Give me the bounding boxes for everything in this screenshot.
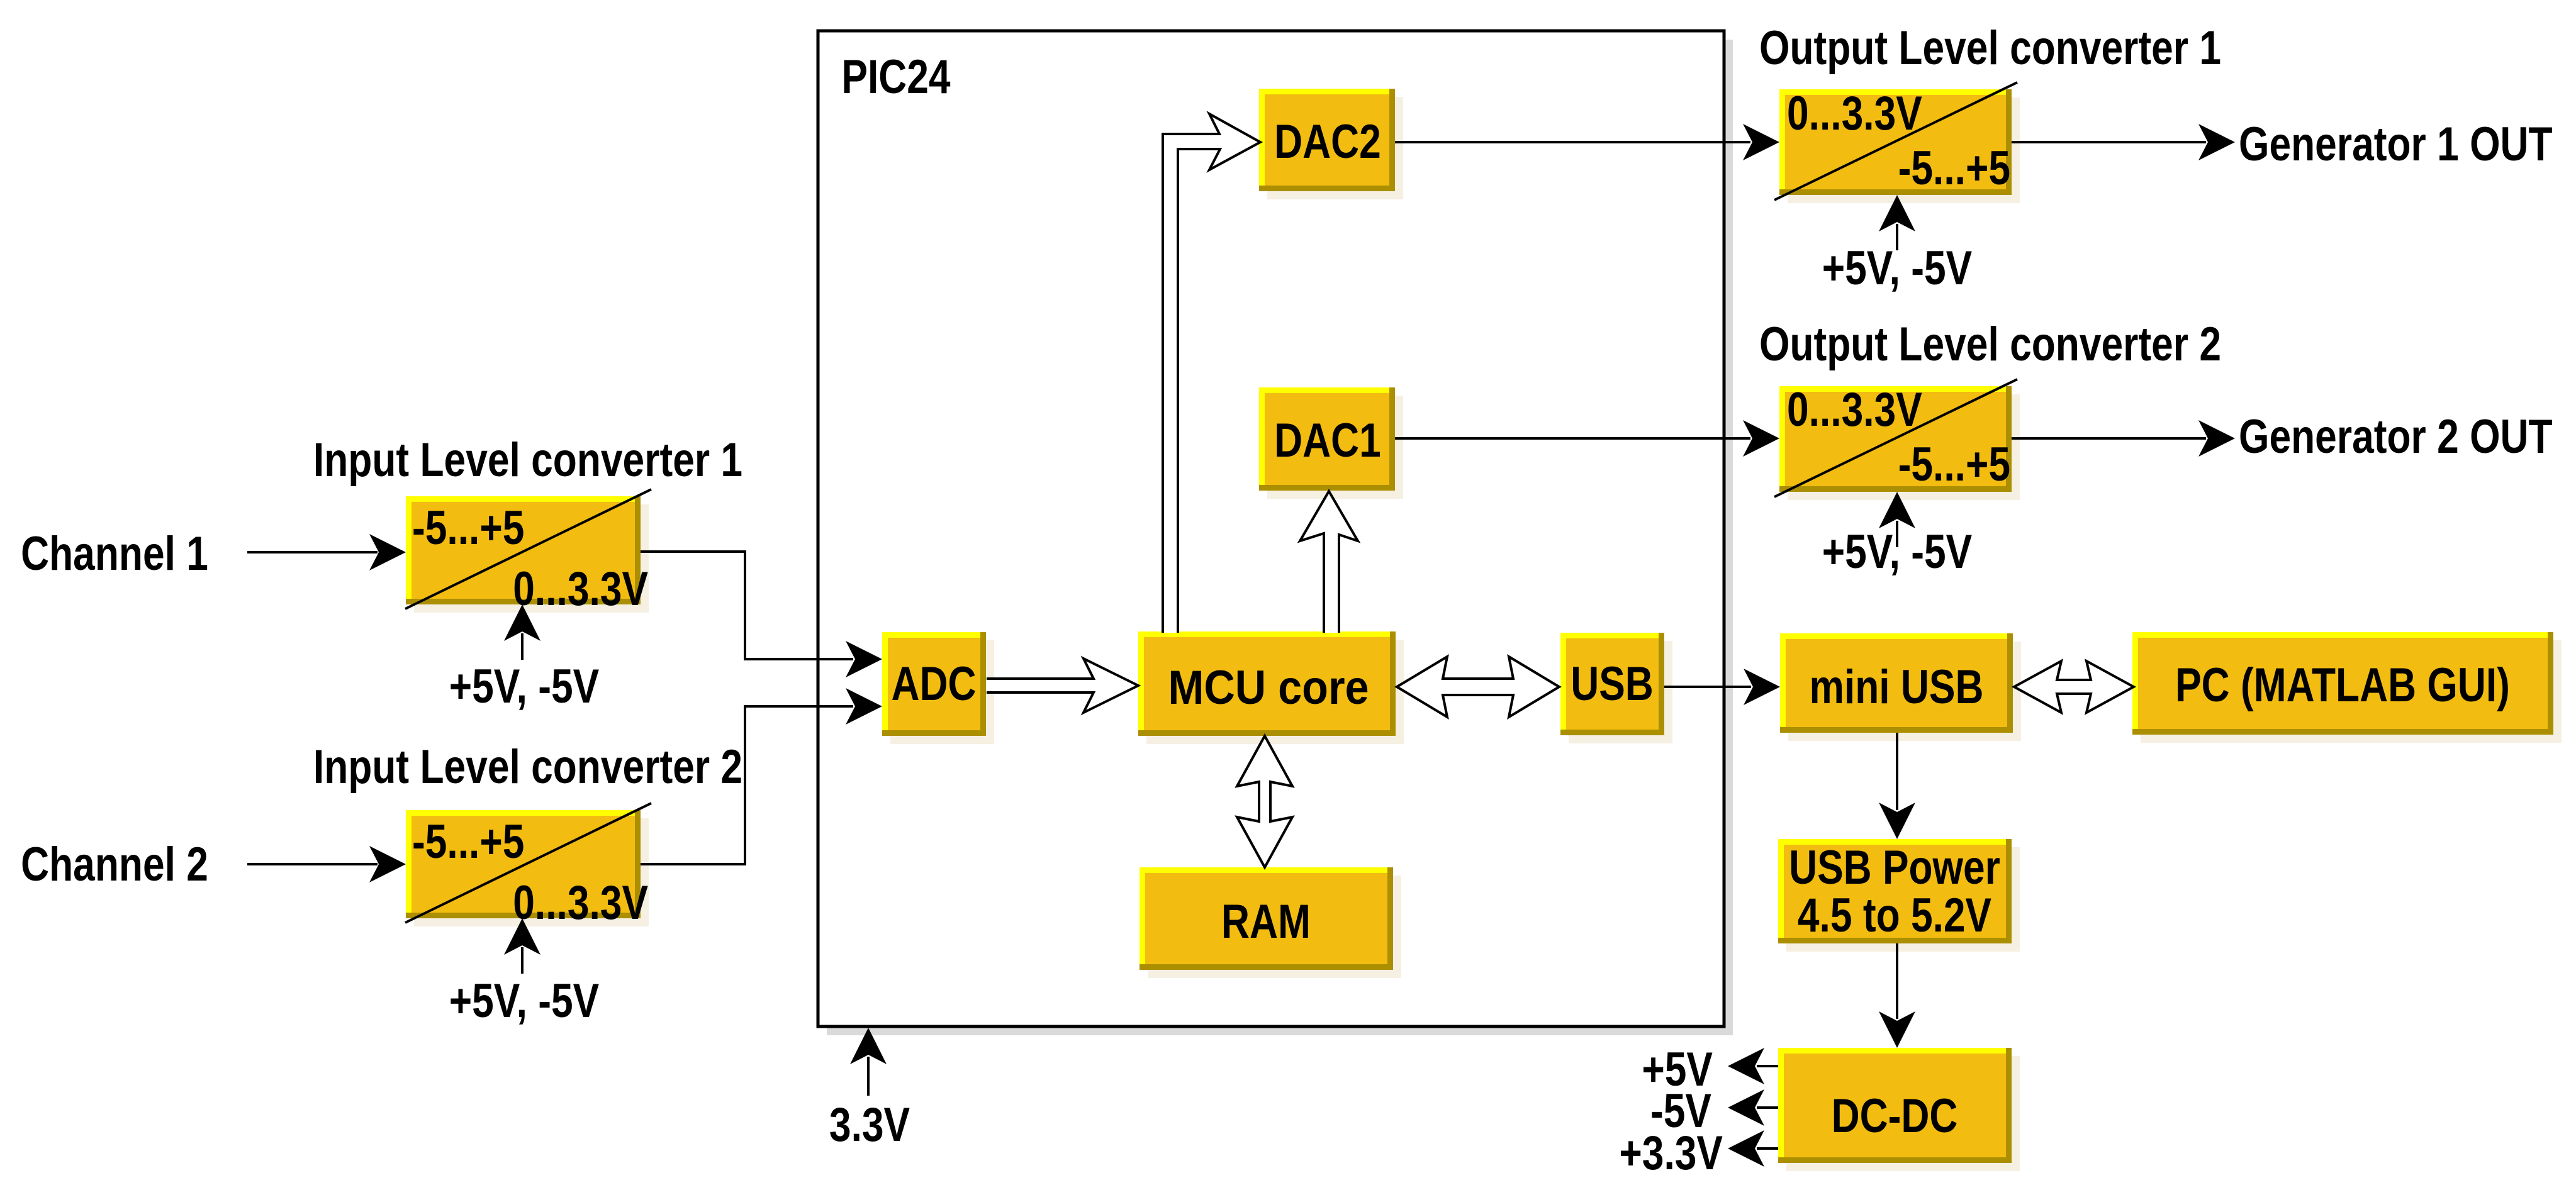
hollow arrow MCU to DAC2 bbox=[1163, 114, 1260, 633]
svg-text:0...3.3V: 0...3.3V bbox=[1787, 382, 1922, 436]
svg-text:4.5 to 5.2V: 4.5 to 5.2V bbox=[1798, 888, 1991, 942]
svg-text:-5...+5: -5...+5 bbox=[412, 501, 524, 554]
hollow double arrow MCU-USB bbox=[1397, 657, 1559, 717]
svg-text:0...3.3V: 0...3.3V bbox=[1787, 86, 1922, 140]
hollow double arrow MCU-RAM bbox=[1237, 736, 1292, 867]
wire +5V,-5V feed OLC1 bbox=[1896, 224, 1898, 250]
svg-text:0...3.3V: 0...3.3V bbox=[513, 562, 648, 615]
block RAM bbox=[1140, 867, 1401, 978]
converter OLC2 box bbox=[1779, 386, 2020, 500]
svg-text:Input Level converter 2: Input Level converter 2 bbox=[313, 740, 742, 793]
svg-text:+5V, -5V: +5V, -5V bbox=[449, 659, 599, 713]
svg-text:Generator 2 OUT: Generator 2 OUT bbox=[2239, 409, 2553, 463]
wire mini USB to USB Power bbox=[1896, 733, 1898, 810]
block ADC bbox=[882, 632, 994, 744]
wire DC-DC +5V out bbox=[1757, 1065, 1778, 1067]
PIC24 block bbox=[818, 31, 1724, 1026]
hollow arrow MCU to DAC1 bbox=[1300, 491, 1358, 633]
svg-text:3.3V: 3.3V bbox=[829, 1098, 910, 1151]
svg-text:PC (MATLAB GUI): PC (MATLAB GUI) bbox=[2175, 658, 2510, 711]
block DC-DC bbox=[1778, 1048, 2020, 1171]
wire USB to mini USB bbox=[1664, 686, 1751, 688]
wire USB Power to DC-DC bbox=[1896, 943, 1898, 1019]
hollow double arrow miniUSB-PC bbox=[2014, 661, 2134, 713]
svg-text:-5...+5: -5...+5 bbox=[1898, 437, 2010, 491]
wire DAC2 to OLC1 bbox=[1395, 141, 1750, 143]
svg-text:Output Level converter 2: Output Level converter 2 bbox=[1759, 317, 2221, 370]
wire DC-DC +3.3V out bbox=[1757, 1147, 1778, 1150]
wire +5V,-5V feed OLC2 bbox=[1896, 521, 1898, 547]
svg-text:+5V, -5V: +5V, -5V bbox=[449, 974, 599, 1027]
converter OLC1 box bbox=[1779, 89, 2020, 203]
diagonal ILC2 bbox=[405, 803, 651, 923]
wire +5V,-5V feed ILC2 bbox=[521, 947, 524, 974]
svg-text:USB: USB bbox=[1571, 657, 1654, 710]
svg-text:-5...+5: -5...+5 bbox=[1898, 141, 2010, 194]
svg-text:Input Level converter 1: Input Level converter 1 bbox=[313, 433, 742, 486]
wire ILC1 to ADC bbox=[641, 552, 853, 659]
wire DAC1 to OLC2 bbox=[1395, 437, 1750, 440]
svg-text:RAM: RAM bbox=[1221, 894, 1311, 948]
converter ILC1 box bbox=[406, 496, 649, 613]
svg-text:+5V, -5V: +5V, -5V bbox=[1822, 525, 1972, 578]
wire Channel1 to ILC1 bbox=[247, 551, 378, 553]
svg-text:MCU core: MCU core bbox=[1168, 662, 1369, 715]
svg-text:USB Power: USB Power bbox=[1789, 840, 2000, 894]
svg-text:Channel 2: Channel 2 bbox=[21, 837, 208, 891]
block PC (MATLAB GUI) bbox=[2132, 632, 2562, 743]
svg-text:Channel 1: Channel 1 bbox=[21, 526, 208, 580]
block DAC1 bbox=[1259, 387, 1403, 499]
wire +5V,-5V feed ILC1 bbox=[521, 633, 524, 660]
hollow arrow ADC to MCU bbox=[987, 659, 1138, 713]
block MCU core bbox=[1138, 631, 1404, 744]
svg-text:DC-DC: DC-DC bbox=[1832, 1089, 1958, 1142]
block mini USB bbox=[1780, 633, 2021, 741]
svg-text:PIC24: PIC24 bbox=[841, 50, 950, 103]
wire ILC2 to ADC bbox=[641, 706, 853, 864]
svg-text:+3.3V: +3.3V bbox=[1619, 1126, 1723, 1179]
block DAC2 bbox=[1259, 89, 1403, 199]
diagonal OLC2 bbox=[1774, 379, 2017, 497]
wire 3.3V feed PIC24 bbox=[867, 1057, 870, 1096]
svg-text:mini USB: mini USB bbox=[1810, 660, 1984, 713]
svg-text:0...3.3V: 0...3.3V bbox=[513, 876, 648, 929]
svg-text:DAC1: DAC1 bbox=[1274, 413, 1381, 467]
diagonal OLC1 bbox=[1774, 82, 2017, 200]
wire Channel2 to ILC2 bbox=[247, 863, 378, 865]
svg-text:Generator 1 OUT: Generator 1 OUT bbox=[2239, 117, 2553, 170]
svg-text:DAC2: DAC2 bbox=[1274, 114, 1381, 168]
wire OLC1 to Generator 1 OUT bbox=[2012, 141, 2206, 143]
svg-text:Output Level converter 1: Output Level converter 1 bbox=[1759, 21, 2221, 74]
block USB Power bbox=[1778, 839, 2020, 952]
svg-text:ADC: ADC bbox=[892, 657, 977, 710]
diagonal ILC1 bbox=[405, 489, 651, 609]
wire OLC2 to Generator 2 OUT bbox=[2012, 437, 2206, 440]
wire DC-DC -5V out bbox=[1757, 1106, 1778, 1109]
block USB bbox=[1560, 633, 1672, 743]
svg-text:-5...+5: -5...+5 bbox=[412, 815, 524, 868]
converter ILC2 box bbox=[406, 810, 649, 926]
PIC24 block shadow bbox=[827, 40, 1733, 1035]
svg-text:+5V, -5V: +5V, -5V bbox=[1822, 241, 1972, 294]
